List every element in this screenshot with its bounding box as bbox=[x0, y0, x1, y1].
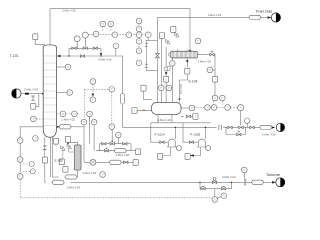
svg-text:2-Met 4-25: 2-Met 4-25 bbox=[98, 57, 112, 61]
svg-text:E-104: E-104 bbox=[189, 80, 198, 84]
svg-text:E-105: E-105 bbox=[55, 159, 64, 163]
svg-text:PSV-104: PSV-104 bbox=[179, 84, 182, 94]
svg-text:2-Met 4-26: 2-Met 4-26 bbox=[83, 171, 97, 175]
svg-text:1-Met 4-28: 1-Met 4-28 bbox=[116, 153, 130, 157]
svg-text:Fuel Gas: Fuel Gas bbox=[256, 9, 272, 14]
svg-text:T-101: T-101 bbox=[10, 54, 19, 58]
svg-text:Toluene: Toluene bbox=[266, 172, 281, 177]
svg-text:1-Met 4-25: 1-Met 4-25 bbox=[62, 117, 76, 121]
svg-text:2-Met 4-30: 2-Met 4-30 bbox=[62, 8, 76, 12]
svg-text:4-Met 4-26: 4-Met 4-26 bbox=[158, 118, 172, 122]
svg-text:2-Met 4-29: 2-Met 4-29 bbox=[24, 87, 38, 91]
svg-text:P-102B: P-102B bbox=[190, 132, 200, 136]
svg-text:1-Met 4-23: 1-Met 4-23 bbox=[208, 13, 222, 17]
svg-text:P-102A: P-102A bbox=[155, 132, 166, 136]
svg-text:1-Met 4-24: 1-Met 4-24 bbox=[198, 59, 212, 63]
svg-text:2-Met 4-29: 2-Met 4-29 bbox=[262, 133, 276, 137]
svg-text:2-Met 4-24: 2-Met 4-24 bbox=[222, 175, 236, 179]
svg-text:TI: TI bbox=[240, 108, 242, 110]
svg-text:2-Met 4-26: 2-Met 4-26 bbox=[67, 185, 81, 189]
